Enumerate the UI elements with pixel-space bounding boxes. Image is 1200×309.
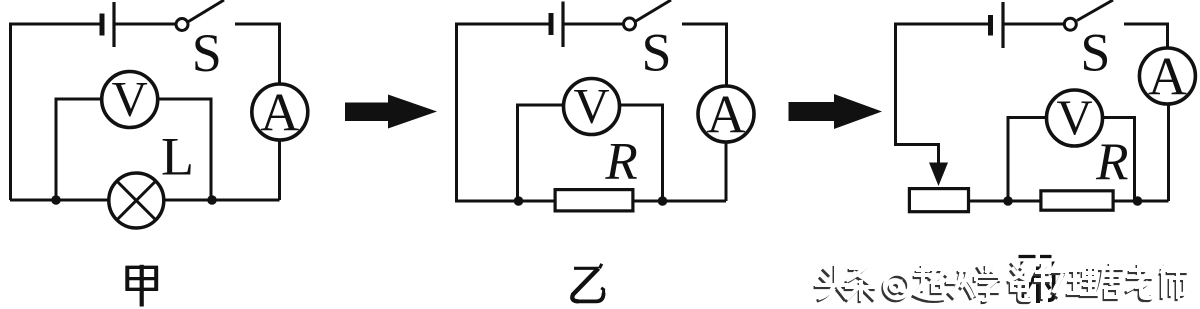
svg-text:A: A [707,85,746,145]
wire switch to top-right corner [1124,24,1168,47]
junction dot left [514,196,524,206]
voltmeter V1 [102,72,158,128]
watermark shadow [815,265,1185,303]
wire battery to switch [1003,23,1063,26]
label jia (Chinese) [126,265,159,307]
svg-text:L: L [161,127,194,187]
junction dot right [1133,196,1143,206]
wire switch to top-right corner [235,24,280,85]
lamp L1 [109,173,164,228]
resistor R (circuit 2) [555,190,633,211]
voltmeter V3 [1047,90,1103,146]
svg-text:V: V [1056,89,1092,145]
big arrow 1 [345,95,437,129]
label bing (Chinese) [1019,257,1054,304]
switch S3 [1064,18,1076,30]
label yi (Chinese) [572,264,603,302]
junction dot right [207,195,217,205]
wire voltmeter branch [1008,118,1135,202]
wire switch to top-right corner [682,24,727,87]
junction dot left [51,195,61,205]
switch S1 [176,19,188,31]
resistor R (circuit 3) [1041,191,1113,210]
wire voltmeter branch [518,105,663,201]
wire battery to switch [563,23,623,26]
svg-text:S: S [641,23,671,83]
wire bottom [970,200,1169,203]
wire bottom [455,200,726,203]
rheostat [909,189,968,212]
wire voltmeter branch [56,99,211,200]
wire battery to switch [114,23,175,26]
wire top-left, left side and to rheostat wiper [896,24,989,163]
ammeter A3 [1139,48,1195,104]
voltmeter V2 [564,79,620,135]
svg-text:V: V [573,78,609,134]
wire top-left and left side [11,24,101,200]
wire ammeter to bottom [278,139,281,200]
wire right side up to ammeter [1167,101,1170,201]
svg-text:A: A [260,83,299,143]
battery B3 [988,15,993,36]
ammeter A1 [252,84,308,140]
junction dot left [1003,196,1013,206]
wire ammeter to bottom [725,141,728,201]
svg-text:A: A [1148,47,1187,107]
wire bottom [10,199,280,202]
svg-text:R: R [604,133,637,191]
svg-text:V: V [112,71,148,127]
svg-text:R: R [1095,133,1128,191]
svg-text:S: S [192,23,222,83]
battery B1 [100,14,105,36]
big arrow 2 [789,94,883,129]
svg-text:S: S [1080,23,1110,83]
switch S2 [624,18,636,30]
battery B2 [549,13,554,35]
ammeter A2 [698,86,754,142]
junction dot right [658,196,668,206]
wire top-left and left side [457,24,550,201]
rheostat wiper arrowhead [929,163,948,187]
watermark white overlay [817,262,1187,300]
